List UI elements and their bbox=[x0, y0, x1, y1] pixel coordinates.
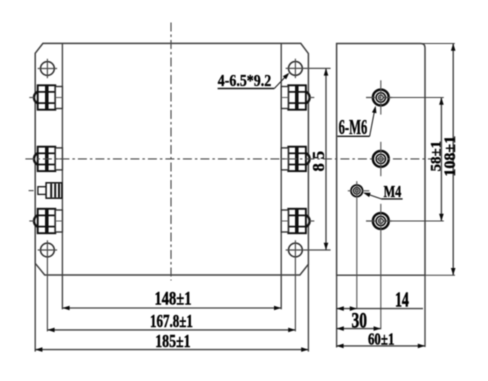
side view body outline bbox=[337, 44, 425, 276]
ground stud centerline stub bbox=[29, 190, 34, 192]
dimension 108±1 line bbox=[452, 44, 454, 276]
dimension 14 line bbox=[337, 308, 423, 310]
svg-text:30: 30 bbox=[351, 309, 366, 333]
terminal R3 centerline stub bbox=[309, 220, 314, 222]
extension line right body edge (185) bbox=[307, 264, 309, 351]
main horizontal centerline bbox=[25, 158, 434, 160]
bottom stud horizontal centerline bbox=[366, 220, 392, 222]
extension line side right edge (60) bbox=[424, 275, 426, 347]
dimension 30 line bbox=[337, 328, 381, 330]
svg-text:167.8±1: 167.8±1 bbox=[150, 312, 193, 332]
svg-text:108±1: 108±1 bbox=[442, 136, 459, 177]
terminal R1 (load) right row1 bbox=[281, 85, 309, 109]
dimension 58±1 line bbox=[440, 98, 442, 222]
extension line side bottom edge (108) bbox=[425, 274, 455, 276]
svg-text:14: 14 bbox=[395, 288, 409, 312]
extension line left body edge (185) bbox=[34, 263, 36, 351]
terminal L1 centerline stub bbox=[29, 97, 34, 99]
extension line right flange (148) bbox=[280, 275, 282, 309]
front view vertical centerline bbox=[170, 23, 172, 281]
extension line top stud (58) bbox=[389, 97, 444, 99]
M4 ground stud (side view) bbox=[351, 185, 363, 197]
M6 stud top vertical centerline bbox=[380, 80, 382, 114]
terminal R3 (load) right row3 bbox=[281, 209, 309, 233]
dimension 148±1 line bbox=[62, 307, 281, 309]
svg-text:85: 85 bbox=[309, 147, 328, 172]
extension line side top edge (108) bbox=[418, 43, 455, 45]
M6 stud middle (side view) bbox=[373, 151, 389, 167]
dimension 185±1 line bbox=[35, 349, 308, 351]
M4 stud vertical centerline + 14 extension bbox=[356, 181, 358, 308]
mounting hole top-right 6.5*9.2 bbox=[289, 62, 303, 76]
dimension 60±1 line bbox=[336, 345, 425, 347]
M6 stud top (side view) bbox=[373, 90, 389, 106]
front view body outline bbox=[35, 43, 308, 275]
svg-text:6-M6: 6-M6 bbox=[339, 116, 368, 139]
ground stud E (left, small) bbox=[38, 187, 46, 195]
mounting hole bottom-left 6.5*9.2 bbox=[41, 243, 55, 257]
M6 stud middle vertical centerline bbox=[380, 142, 382, 176]
terminal R1 centerline stub bbox=[309, 97, 314, 99]
mounting hole bottom-right 6.5*9.2 bbox=[289, 243, 303, 257]
dimension 85 line bbox=[325, 68, 327, 250]
front view left flange inner line bbox=[61, 43, 63, 275]
terminal R2 (load) right row2 bbox=[281, 147, 309, 171]
front view right flange inner line bbox=[280, 43, 282, 275]
dimension 167.8±1 line bbox=[47, 329, 295, 331]
extension line side left edge (14/30/60) bbox=[336, 275, 338, 347]
svg-text:148±1: 148±1 bbox=[155, 288, 192, 309]
svg-text:185±1: 185±1 bbox=[155, 333, 190, 352]
terminal L3 (line) left row3 bbox=[34, 215, 39, 227]
M6 stud bottom vertical centerline + 30 extension bbox=[380, 204, 382, 329]
terminal L3 centerline stub bbox=[29, 220, 34, 222]
terminal L1 (line) left row1 bbox=[34, 92, 39, 104]
M6 stud bottom (side view) bbox=[373, 213, 389, 229]
extension line left flange (148) bbox=[61, 275, 63, 309]
M4 stud horizontal centerline stubs bbox=[348, 190, 352, 192]
extension line bottom stud (58) bbox=[389, 220, 444, 222]
top stud horizontal centerline bbox=[366, 97, 392, 99]
mounting hole top-left 6.5*9.2 bbox=[41, 62, 55, 76]
terminal L2 (line) left row2 bbox=[34, 153, 39, 165]
svg-text:60±1: 60±1 bbox=[368, 330, 394, 349]
svg-text:4-6.5*9.2: 4-6.5*9.2 bbox=[218, 72, 272, 91]
